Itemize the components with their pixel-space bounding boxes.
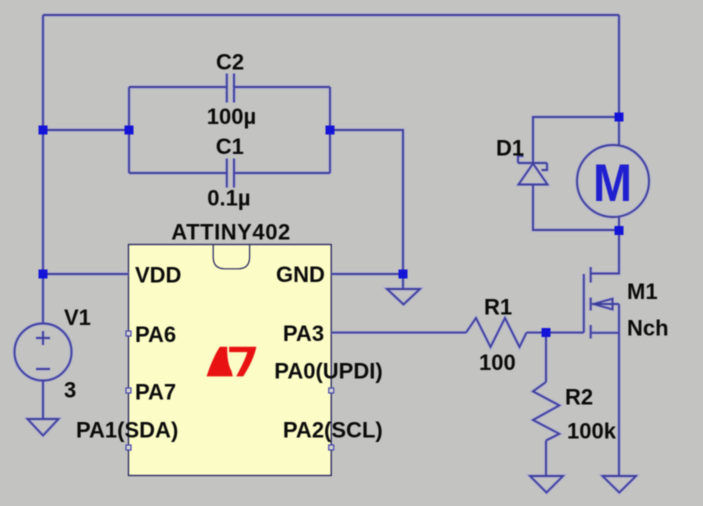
svg-text:PA3: PA3 (283, 321, 324, 346)
pin PA7 (126, 388, 131, 393)
svg-text:GND: GND (276, 262, 325, 287)
svg-text:100k: 100k (567, 419, 617, 444)
svg-text:C1: C1 (216, 134, 244, 159)
node junction (615, 113, 624, 122)
op-amp U1: ATTINY402 IC body (129, 245, 332, 476)
svg-text:ATTINY402: ATTINY402 (171, 219, 290, 244)
svg-text:VDD: VDD (135, 263, 181, 288)
svg-text:V1: V1 (64, 305, 91, 330)
pin PA1 (126, 445, 131, 450)
svg-text:R2: R2 (565, 385, 593, 410)
node junction (125, 126, 134, 135)
node junction squares (39, 113, 624, 338)
svg-text:C2: C2 (216, 50, 244, 75)
svg-text:100: 100 (479, 350, 516, 375)
node junction (399, 270, 408, 279)
svg-text:3: 3 (64, 378, 76, 403)
svg-text:100µ: 100µ (207, 104, 256, 129)
pin PA6 (126, 331, 131, 336)
svg-text:PA1(SDA): PA1(SDA) (76, 418, 178, 443)
svg-text:Nch: Nch (627, 316, 669, 341)
node junction (542, 328, 551, 337)
node junction (39, 126, 48, 135)
svg-text:R1: R1 (484, 294, 512, 319)
svg-text:PA7: PA7 (135, 379, 176, 404)
IC notch (213, 245, 249, 269)
node junction (615, 226, 624, 235)
pin PA2 (329, 445, 334, 450)
svg-text:0.1µ: 0.1µ (207, 186, 250, 211)
pin PA0 (329, 388, 334, 393)
node junction (39, 270, 48, 279)
unconnected pin squares (126, 331, 334, 450)
LT logo (207, 347, 257, 377)
svg-text:D1: D1 (496, 136, 524, 161)
svg-text:PA0(UPDI): PA0(UPDI) (274, 359, 382, 384)
node junction (326, 126, 335, 135)
svg-text:PA2(SCL): PA2(SCL) (283, 418, 383, 443)
svg-text:PA6: PA6 (135, 322, 176, 347)
svg-text:M: M (593, 154, 632, 213)
svg-text:M1: M1 (627, 279, 658, 304)
